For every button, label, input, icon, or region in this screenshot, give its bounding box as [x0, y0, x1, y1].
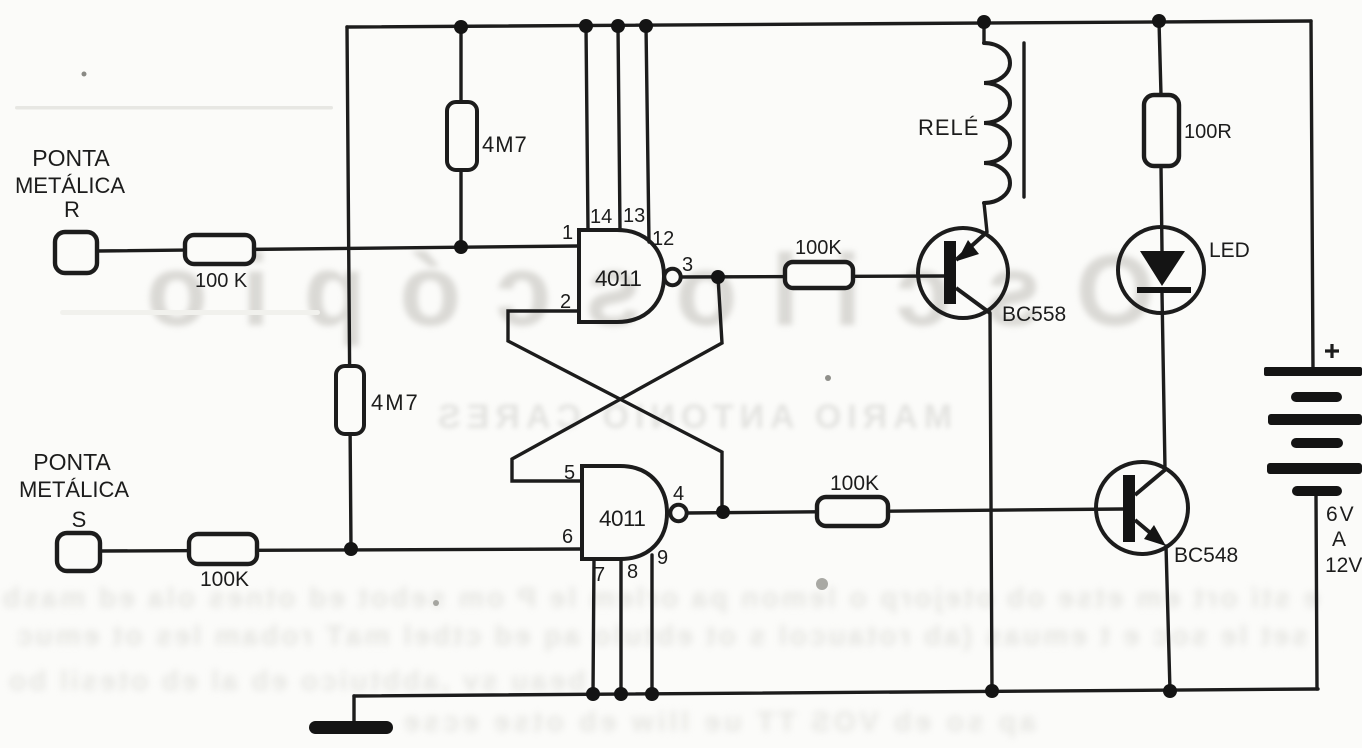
- svg-text:1: 1: [562, 222, 573, 244]
- svg-text:RELÉ: RELÉ: [918, 115, 979, 140]
- svg-text:100K: 100K: [200, 568, 249, 591]
- svg-text:R: R: [64, 197, 80, 222]
- svg-text:100R: 100R: [1184, 121, 1232, 143]
- svg-text:4: 4: [673, 483, 684, 505]
- svg-text:A: A: [1332, 528, 1346, 551]
- svg-text:8: 8: [627, 561, 638, 583]
- svg-text:METÁLICA: METÁLICA: [19, 477, 129, 502]
- svg-text:6V: 6V: [1326, 503, 1356, 526]
- svg-text:12: 12: [652, 228, 674, 250]
- svg-text:S: S: [72, 507, 87, 532]
- svg-text:100K: 100K: [795, 237, 842, 259]
- svg-text:100 K: 100 K: [195, 270, 248, 292]
- svg-text:3: 3: [682, 254, 693, 276]
- svg-text:BC558: BC558: [1002, 303, 1066, 326]
- svg-text:2: 2: [560, 291, 571, 313]
- svg-text:5: 5: [564, 462, 575, 484]
- svg-text:4011: 4011: [599, 506, 645, 531]
- svg-text:PONTA: PONTA: [32, 145, 110, 171]
- svg-text:4M7: 4M7: [371, 390, 420, 415]
- svg-text:9: 9: [657, 547, 668, 569]
- svg-text:6: 6: [562, 526, 573, 548]
- svg-text:4011: 4011: [595, 266, 641, 291]
- svg-text:14: 14: [590, 206, 612, 228]
- svg-text:4M7: 4M7: [482, 132, 528, 157]
- svg-text:METÁLICA: METÁLICA: [15, 173, 125, 198]
- svg-text:LED: LED: [1209, 239, 1250, 262]
- svg-text:100K: 100K: [830, 472, 879, 495]
- svg-text:13: 13: [623, 205, 645, 227]
- svg-text:PONTA: PONTA: [33, 449, 111, 475]
- svg-text:BC548: BC548: [1174, 544, 1238, 567]
- svg-text:12V: 12V: [1325, 554, 1362, 577]
- svg-text:7: 7: [594, 564, 605, 586]
